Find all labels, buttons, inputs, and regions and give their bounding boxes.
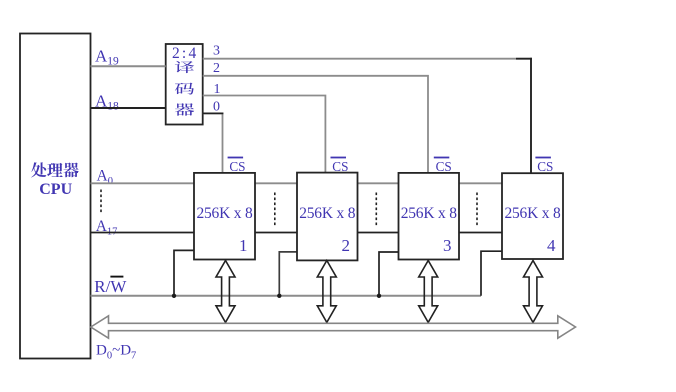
data port arrow chip 1 [216, 261, 235, 323]
svg-text:CS: CS [537, 159, 553, 174]
decoder output 3 wire dark tail [516, 58, 532, 60]
junction dot chip1 [172, 294, 176, 298]
decoder label 译码器 [175, 61, 194, 116]
wire A0 row segment [459, 182, 502, 184]
svg-text:256K x 8: 256K x 8 [299, 205, 356, 222]
decoder output 3 wire [203, 59, 531, 173]
R/W riser to chip3 [379, 252, 399, 296]
overline on W [110, 276, 123, 278]
svg-text:CS: CS [332, 159, 348, 174]
svg-text:4: 4 [547, 236, 556, 255]
R/W riser to chip1 [174, 250, 194, 295]
svg-text:256K x 8: 256K x 8 [504, 205, 561, 222]
svg-text:2:4: 2:4 [172, 45, 198, 62]
address ellipsis near CPU [100, 190, 102, 214]
address ellipsis between chips [375, 193, 377, 228]
wire A17 row segment [358, 232, 399, 234]
svg-text:2: 2 [213, 61, 220, 76]
memory chip 4 box 256Kx8 [502, 173, 563, 259]
svg-text:CS: CS [229, 159, 245, 174]
svg-text:CS: CS [436, 159, 452, 174]
wire A17 row segment [459, 232, 502, 234]
wire A19 CPU to decoder [91, 65, 166, 67]
svg-text:3: 3 [443, 236, 452, 255]
svg-text:256K x 8: 256K x 8 [401, 205, 458, 222]
chip 3 CS overline [434, 157, 450, 159]
junction dot chip3 [377, 294, 381, 298]
address ellipsis between chips [274, 193, 276, 228]
svg-text:3: 3 [213, 43, 220, 58]
R/W riser to chip2 [279, 252, 297, 296]
wire A18 CPU to decoder [91, 107, 166, 109]
CPU label 处理器 [31, 162, 78, 177]
address ellipsis between chips [476, 193, 478, 228]
memory chip 1 box 256Kx8 [194, 173, 255, 260]
decoder output 3 drop to chip4 [530, 58, 532, 173]
svg-text:R/W: R/W [94, 277, 127, 296]
wire A0 row segment [91, 182, 195, 184]
svg-text:CPU: CPU [39, 181, 72, 198]
processor CPU box [20, 34, 91, 359]
data port arrow chip 2 [317, 261, 336, 323]
data port arrow chip 4 [524, 261, 543, 323]
junction dot chip2 [277, 294, 281, 298]
svg-text:D0~D7: D0~D7 [96, 343, 136, 362]
decoder output 0 dark stub [203, 112, 224, 114]
data bus D0~D7 double arrow [91, 316, 576, 338]
R/W riser to chip4 [481, 251, 502, 296]
wire A17 row segment [91, 232, 195, 234]
wire A0 row segment [358, 182, 399, 184]
wire A0 row segment [255, 182, 297, 184]
svg-text:1: 1 [239, 236, 248, 255]
memory chip 2 box 256Kx8 [297, 173, 358, 261]
data port arrow chip 3 [419, 261, 438, 323]
svg-text:2: 2 [342, 236, 351, 255]
wire A17 row segment [255, 232, 297, 234]
wire R/W bus [91, 295, 482, 297]
svg-text:0: 0 [213, 100, 220, 115]
chip 2 CS overline [331, 157, 347, 159]
memory chip 3 box 256Kx8 [399, 173, 460, 260]
chip 4 CS overline [535, 157, 551, 159]
decoder output 0 wire [203, 113, 223, 172]
decoder output 2 wire [203, 76, 428, 173]
chip 1 CS overline [228, 157, 244, 159]
decoder U1 2:4 box [166, 44, 203, 125]
svg-text:256K x 8: 256K x 8 [196, 205, 253, 222]
decoder output 1 wire [203, 96, 326, 173]
